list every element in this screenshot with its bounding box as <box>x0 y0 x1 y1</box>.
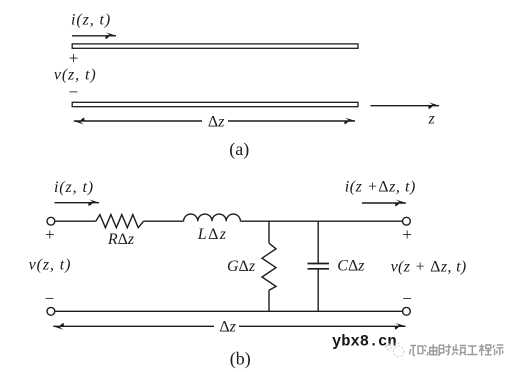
label i(z+dz,t) <box>345 178 416 195</box>
label i(z,t) (b) <box>54 179 94 196</box>
caption (a) <box>229 139 249 160</box>
wire top-right <box>240 220 402 222</box>
label R-delta-z <box>107 231 135 248</box>
svg-text:+: + <box>402 225 412 244</box>
svg-text:Δz: Δz <box>208 113 225 130</box>
svg-text:v(z, t): v(z, t) <box>54 66 97 83</box>
svg-text:CΔz: CΔz <box>337 258 365 275</box>
label v(z,t) (b) <box>29 257 72 274</box>
svg-text:Δz: Δz <box>219 318 236 335</box>
char pin <box>452 344 466 355</box>
caption (b) <box>230 349 251 370</box>
char jia <box>410 346 423 356</box>
svg-text:+: + <box>69 49 79 68</box>
svg-text:−: − <box>45 289 55 308</box>
delta-z dimension arrow (b) <box>53 325 214 327</box>
char you <box>424 344 437 355</box>
node G junction wire <box>268 221 270 243</box>
watermark chinese text (drawn strokes) <box>410 344 504 356</box>
svg-text:(a): (a) <box>229 139 249 160</box>
svg-text:i(z, t): i(z, t) <box>71 11 111 28</box>
svg-text:i(z, t): i(z, t) <box>54 179 94 196</box>
capacitor C-delta-z plates <box>308 263 330 265</box>
current arrow (b) left <box>55 202 100 204</box>
current arrow (b) right <box>362 202 406 204</box>
inductor L-delta-z <box>184 214 241 221</box>
wire below G <box>268 290 270 311</box>
bottom wire (b) <box>55 310 403 312</box>
current arrow (a) <box>72 35 116 37</box>
label L-delta-z <box>197 226 228 243</box>
svg-text:−: − <box>69 83 79 102</box>
delta-z label (a) <box>208 113 225 130</box>
label G-delta-z <box>227 258 256 275</box>
watermark doodle <box>385 343 404 356</box>
char shi <box>493 345 504 356</box>
plus sign (a) <box>69 49 79 68</box>
svg-text:(b): (b) <box>230 349 251 370</box>
svg-text:−: − <box>402 289 412 308</box>
svg-text:v(z, t): v(z, t) <box>29 257 72 274</box>
label i(z,t) top <box>71 11 111 28</box>
wire between R and L <box>144 220 184 222</box>
minus sign (a) <box>69 83 79 102</box>
wire top-left <box>55 220 96 222</box>
char gong <box>467 346 478 355</box>
char she <box>438 344 451 356</box>
label v(z+dz,t) (b) <box>391 259 467 276</box>
top conductor bar <box>72 44 358 48</box>
node C junction wire <box>317 221 319 263</box>
terminal circle bottom-right <box>403 307 411 315</box>
bottom conductor bar <box>72 102 358 106</box>
svg-text:RΔz: RΔz <box>107 231 135 248</box>
z axis label <box>427 111 435 128</box>
svg-text:GΔz: GΔz <box>227 258 256 275</box>
svg-text:i(z +Δz, t): i(z +Δz, t) <box>345 178 416 195</box>
char cheng <box>479 344 492 355</box>
z axis arrow <box>371 105 440 107</box>
svg-text:v(z + Δz, t): v(z + Δz, t) <box>391 259 467 276</box>
plus sign (b) right <box>402 225 412 244</box>
plus sign (b) left <box>45 225 55 244</box>
svg-text:ybx8.cn: ybx8.cn <box>332 332 397 350</box>
svg-text:+: + <box>45 225 55 244</box>
minus sign (b) right <box>402 289 412 308</box>
label v(z,t) (a) <box>54 66 97 83</box>
delta-z label (b) <box>219 318 236 335</box>
terminal circle top-right <box>403 217 411 225</box>
terminal circle top-left <box>47 217 55 225</box>
svg-text:LΔz: LΔz <box>197 226 228 243</box>
shunt resistor G-delta-z <box>262 243 276 290</box>
delta-z dimension arrow (a) <box>74 120 202 122</box>
resistor R-delta-z <box>96 215 144 228</box>
label C-delta-z <box>337 258 365 275</box>
wire below C <box>317 269 319 312</box>
minus sign (b) left <box>45 289 55 308</box>
terminal circle bottom-left <box>47 307 55 315</box>
svg-text:z: z <box>427 111 435 128</box>
